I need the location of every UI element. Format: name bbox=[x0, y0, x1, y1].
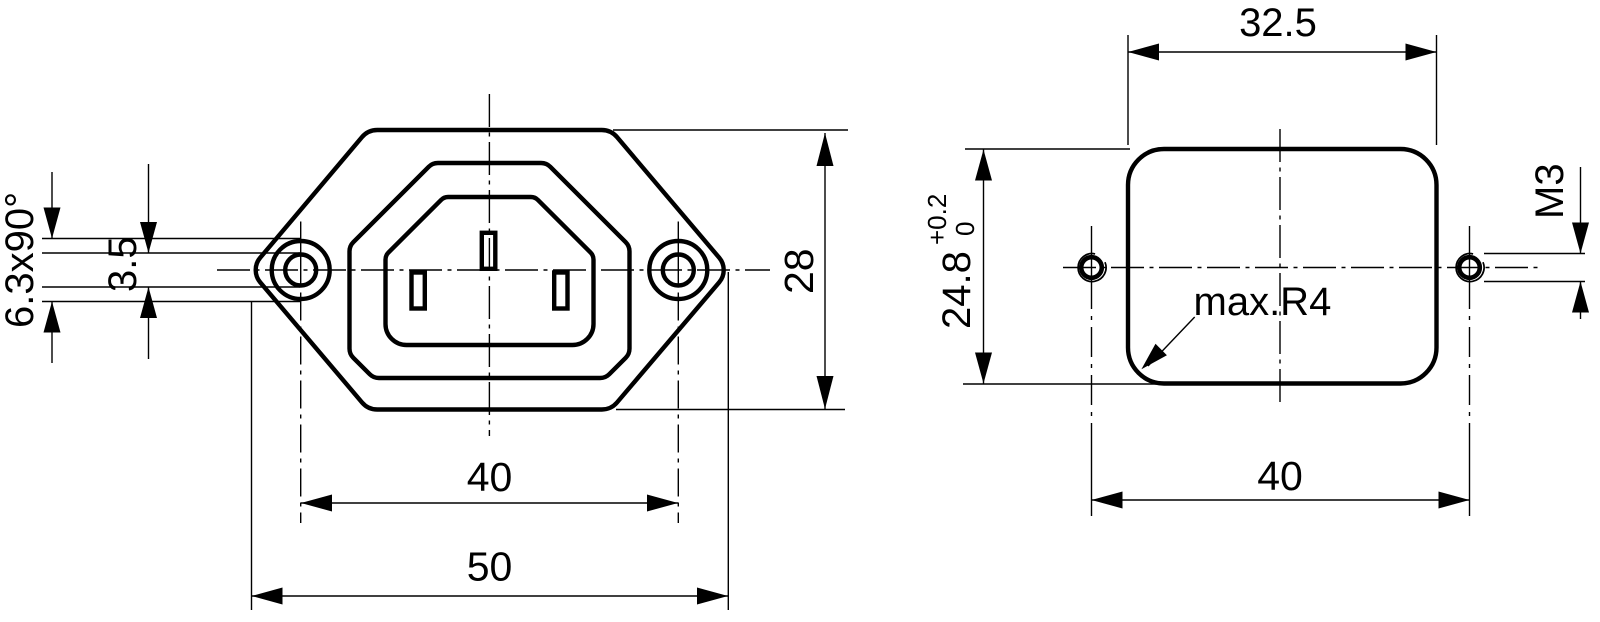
svg-text:3.5: 3.5 bbox=[101, 236, 145, 292]
left mounting hole outer bbox=[272, 241, 330, 299]
dim 32.5 extension lines bbox=[1128, 35, 1437, 145]
left mounting hole inner bbox=[285, 255, 316, 286]
svg-text:max.R4: max.R4 bbox=[1194, 280, 1332, 324]
dim 3.5 extension lines bbox=[42, 253, 300, 287]
dim 32.5 dimension line bbox=[1128, 51, 1437, 53]
svg-text:28: 28 bbox=[776, 248, 822, 294]
right M3 hole crosshair vertical bbox=[1469, 226, 1471, 309]
right mounting hole outer bbox=[649, 241, 707, 299]
dim M3 extension lines bbox=[1484, 254, 1585, 282]
recess outline bbox=[350, 163, 630, 378]
svg-text:40: 40 bbox=[1257, 453, 1303, 499]
horizontal centerline bbox=[217, 269, 770, 271]
svg-text:6.3x90°: 6.3x90° bbox=[0, 192, 42, 328]
left M3 hole thread arc bbox=[1078, 254, 1106, 282]
left M3 hole crosshair dashed below bbox=[1091, 316, 1093, 516]
left M3 hole ring bbox=[1081, 257, 1102, 278]
dim M3 dimension line segments bbox=[1580, 167, 1582, 319]
dim 28 extension lines bbox=[613, 130, 848, 410]
left M3 hole crosshair vertical bbox=[1091, 226, 1093, 309]
right mounting hole inner bbox=[663, 255, 694, 286]
dim 24.8 label with tolerance bbox=[922, 194, 980, 329]
dim 24.8 extension lines bbox=[963, 149, 1165, 384]
horizontal centerline bbox=[1063, 267, 1540, 269]
svg-text:32.5: 32.5 bbox=[1239, 1, 1317, 45]
cut-out rounded rectangle bbox=[1128, 149, 1437, 384]
right hole centerline solid-through segment bbox=[677, 222, 679, 287]
left hole centerline dashed lower part bbox=[300, 293, 302, 524]
max.R4 leader line bbox=[1148, 317, 1195, 366]
svg-text:0: 0 bbox=[950, 222, 980, 236]
dim 32.5 arrows bbox=[1128, 44, 1159, 61]
flange outline bbox=[256, 130, 724, 410]
dim 50 arrows bbox=[252, 588, 283, 605]
left hole centerline solid-through segment bbox=[300, 222, 302, 287]
right M3 hole crosshair dashed below bbox=[1469, 316, 1471, 516]
dim 3.5 dimension line segments bbox=[148, 164, 150, 359]
dim 40 arrows bbox=[1092, 492, 1123, 509]
svg-text:40: 40 bbox=[467, 454, 513, 500]
left pin bbox=[412, 273, 425, 309]
svg-text:+0.2: +0.2 bbox=[922, 194, 952, 245]
dim 40 dimension line bbox=[1092, 499, 1470, 501]
dim M3 arrows bbox=[1572, 223, 1589, 254]
right pin bbox=[554, 273, 567, 309]
dim 24.8 arrows bbox=[975, 150, 992, 181]
svg-text:50: 50 bbox=[467, 544, 513, 590]
dim 6.3x90 dimension line segments bbox=[51, 172, 53, 363]
right hole centerline dashed lower part bbox=[677, 293, 679, 524]
earth pin bbox=[482, 233, 496, 269]
max.R4 leader arrowhead bbox=[1141, 344, 1167, 370]
dim 40 arrows bbox=[301, 495, 332, 512]
vertical centerline bbox=[1279, 129, 1281, 404]
dim 28 dimension line bbox=[824, 133, 826, 409]
dim 28 arrows bbox=[817, 133, 834, 166]
right M3 hole ring bbox=[1459, 257, 1480, 278]
right M3 hole thread arc bbox=[1456, 254, 1484, 282]
dim 50 dimension line bbox=[252, 595, 729, 597]
dim 50 extension lines bbox=[252, 272, 729, 610]
vertical centerline bbox=[488, 94, 490, 436]
dim 6.3x90 arrows bbox=[44, 208, 61, 239]
inner opening outline bbox=[386, 197, 594, 345]
svg-text:24.8: 24.8 bbox=[935, 251, 979, 329]
dim 6.3x90 extension lines bbox=[42, 239, 300, 302]
dim 3.5 arrows bbox=[140, 222, 157, 253]
svg-text:M3: M3 bbox=[1528, 163, 1572, 219]
dim 40 dimension line bbox=[301, 502, 678, 504]
dim 24.8 dimension line bbox=[983, 150, 985, 384]
